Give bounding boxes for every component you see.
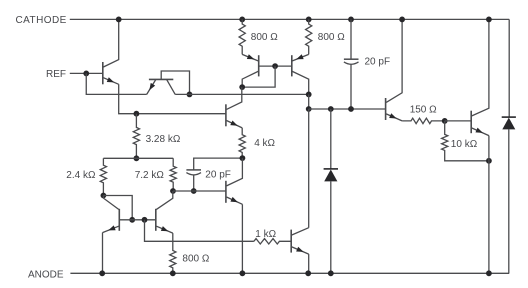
transistor Q3 collector [242,71,259,87]
node A 2.4k bottom [101,193,107,199]
capacitor C2 top wire [194,158,243,170]
node J mirror-collector [239,84,245,90]
node F 4k bottom [240,155,246,161]
node cathode-cap1 [348,17,354,23]
svg-text:4 kΩ: 4 kΩ [254,138,275,149]
transistor Q11 emitter [292,247,309,254]
capacitor C2 bottom plate [186,173,201,175]
wire node C to 1k [145,220,254,242]
transistor Q2 base loop wire [161,71,189,94]
svg-text:3.28 kΩ: 3.28 kΩ [146,134,181,145]
node anode-Q10 [486,270,492,276]
node C [142,217,148,223]
right edge wire (cathode rail down to diode D2) [508,19,510,117]
capacitor C1 top lead [350,19,352,59]
svg-text:2.4 kΩ: 2.4 kΩ [66,170,96,181]
wire node W3 down to Q11 collector [308,109,310,228]
transistor Q11 emitter arrow [296,247,303,252]
transistor Q6 collector [227,158,243,186]
resistor 2.4k [100,158,106,195]
transistor Q7 collector [103,196,118,210]
transistor Q6 emitter [227,197,243,204]
transistor Q7 base bar [118,209,120,231]
node cathode-Q1 collector [116,17,122,23]
resistor 4k [239,128,245,158]
node anode-Q11 [305,270,311,276]
wire mirror base to node J [242,66,275,87]
wire W1 [103,157,173,159]
svg-text:20 pF: 20 pF [365,56,391,67]
node 3.28k top [134,111,140,117]
diode D1 bottom lead [330,181,332,273]
transistor Q5 emitter [292,54,308,61]
transistor Q8 collector [156,191,172,209]
svg-text:10 kΩ: 10 kΩ [451,139,478,150]
wire W3 to Q9 base [309,108,386,110]
transistor Q9 emitter arrow [389,113,396,118]
right edge wire (diode D2 down to anode rail) [508,129,510,273]
node cathode-Q9 [399,17,405,23]
wire Q6 emitter to anode [241,204,243,273]
resistor 800-1 [239,19,245,54]
wire Q1 emitter to Q4 base [119,84,226,113]
transistor Q4 base bar [225,104,227,126]
node cathode-Q10 [486,17,492,23]
svg-text:150 Ω: 150 Ω [410,105,437,116]
node E cap2 bottom [191,188,197,194]
transistor Q1 base bar [102,62,104,84]
node D 7.2k bottom [170,188,176,194]
diode D1 cathode bar [324,168,338,170]
capacitor C2 top plate [186,169,201,171]
capacitor C2 bottom lead [193,175,195,191]
wire node D to Q6 base [173,190,226,192]
REF wire [70,72,103,74]
diode D2 body [502,118,515,130]
transistor Q2 emitter arrow [149,83,155,90]
transistor Q2 collector [167,79,176,94]
wire node K to Q10 base [445,120,472,122]
transistor Q11 base bar [290,230,292,253]
wire H down to node W3 [308,94,310,109]
transistor Q3 emitter arrow [247,54,254,59]
transistor Q5 emitter arrow [296,54,303,59]
node cathode-800ohm-2 [306,17,312,23]
transistor Q7 emitter arrow [108,225,115,230]
anode rail wire [70,272,509,274]
transistor Q5 base bar [291,55,293,76]
svg-text:ANODE: ANODE [28,269,64,280]
diode D1 body [324,170,337,182]
resistor 10k [442,121,489,161]
transistor Q4 collector [227,87,242,109]
node L 10k-emitter [486,158,492,164]
transistor Q4 emitter arrow [230,120,237,125]
transistor Q2 base bar [149,78,173,80]
svg-text:800 Ω: 800 Ω [318,32,345,43]
svg-text:1 kΩ: 1 kΩ [255,229,276,240]
node B [129,217,135,223]
transistor Q8 emitter [156,226,172,233]
diode D2 cathode bar [502,116,516,118]
node anode-D1 [328,270,334,276]
resistor 3.28k [133,114,139,159]
svg-text:800 Ω: 800 Ω [251,32,278,43]
resistor 150 [402,118,445,123]
transistor Q1 emitter [103,78,118,85]
transistor Q10 emitter [472,128,489,136]
node K 150-10k junction [442,118,448,124]
wire mirror base link [259,65,292,67]
node anode-Q7 [99,270,105,276]
transistor Q9 collector [386,19,402,102]
transistor Q1 collector [103,19,118,67]
wire REF node to Q2 emitter [86,73,146,94]
transistor Q7 emitter [103,226,119,232]
svg-text:800 Ω: 800 Ω [182,253,209,264]
transistor Q4 emitter [227,121,243,128]
resistor 7.2k [170,158,176,191]
node diode D1 top [328,106,334,112]
transistor Q3 base bar [258,55,260,76]
transistor Q2 emitter [147,79,156,94]
resistor 800-3 [170,233,176,273]
transistor Q3 emitter [242,54,258,61]
wire node A to node B [103,196,132,220]
svg-text:7.2 kΩ: 7.2 kΩ [135,170,165,181]
node H right collector [306,92,312,98]
transistor Q8 emitter arrow [161,226,168,231]
capacitor C1 top plate [344,58,359,60]
resistor 800-2 [306,19,312,54]
wire Q7 emitter to anode [102,233,104,274]
node REF junction [83,71,89,77]
resistor 1k [254,239,291,244]
svg-text:20 pF: 20 pF [205,170,231,181]
transistor Q9 emitter [386,114,402,121]
node cap1 bottom [348,106,354,112]
wire base link Q7-Q8 [119,219,156,221]
svg-text:REF: REF [46,69,66,80]
wire Q11 emitter to anode [308,254,310,273]
transistor Q6 base bar [225,181,227,203]
transistor Q1 emitter arrow [107,77,114,82]
wire Q2 collector node to mirror node H [175,93,309,95]
transistor Q10 emitter arrow [475,128,482,133]
transistor Q11 collector [292,228,309,235]
cathode rail wire [70,18,509,20]
capacitor C1 bottom plate [344,62,359,64]
svg-text:CATHODE: CATHODE [16,15,67,26]
node anode-Q6 [240,270,246,276]
transistor Q6 emitter arrow [230,197,237,202]
node mirror base [272,63,278,69]
node W3 left [306,106,312,112]
node anode-800-3 [170,270,176,276]
transistor Q5 collector [292,71,309,94]
transistor Q10 base bar [470,111,472,134]
node Q2 collector-base [187,92,193,98]
capacitor C1 bottom lead [350,64,352,109]
transistor Q8 base bar [155,209,157,231]
diode D1 top lead [330,109,332,169]
node cathode-800ohm-1 [239,17,245,23]
transistor Q9 base bar [385,98,387,120]
transistor Q10 collector [472,19,489,116]
wire Q10 emitter to anode [488,136,490,274]
node 3.28k bottom [134,155,140,161]
